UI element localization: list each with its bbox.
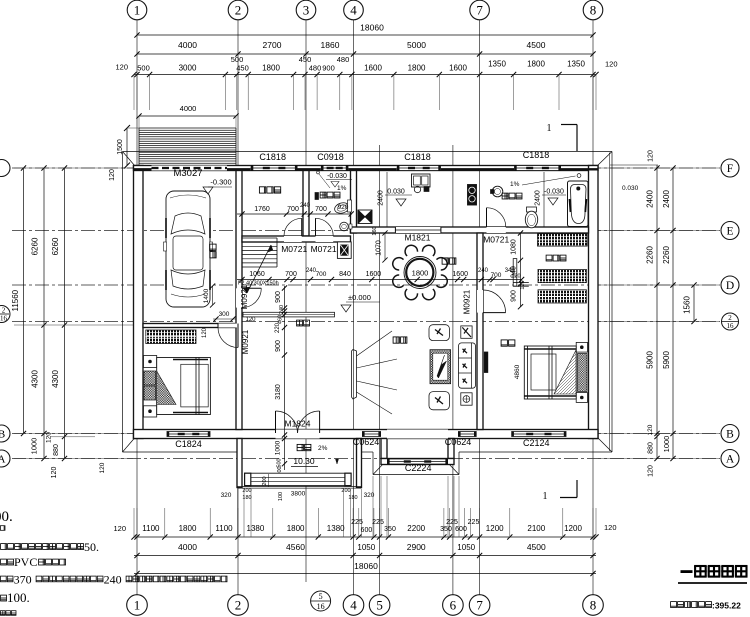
kitchen dim 2400 bbox=[378, 172, 388, 227]
window C1818 storage bbox=[251, 166, 298, 171]
svg-text:2400: 2400 bbox=[535, 190, 542, 206]
svg-text:18060: 18060 bbox=[360, 23, 384, 33]
svg-text:700: 700 bbox=[491, 272, 502, 279]
svg-text:18060: 18060 bbox=[354, 561, 378, 571]
window C0624 living a bbox=[362, 432, 381, 437]
interior wall hall north bbox=[242, 236, 351, 242]
svg-text::395.22: :395.22 bbox=[712, 601, 741, 611]
svg-text:1: 1 bbox=[134, 3, 141, 18]
exterior wall left bbox=[134, 166, 144, 439]
svg-text:16: 16 bbox=[0, 315, 8, 323]
svg-text:120: 120 bbox=[520, 280, 526, 289]
svg-text:1350: 1350 bbox=[567, 60, 585, 69]
eave overhang outline bbox=[123, 152, 613, 453]
top overall dimension 18060 bbox=[134, 23, 595, 38]
label 杂物间 bbox=[259, 187, 265, 193]
svg-text:4: 4 bbox=[350, 3, 357, 18]
svg-text:C2124: C2124 bbox=[523, 438, 550, 448]
ramp dimension 4000 bbox=[136, 104, 238, 128]
garage ramp hatch bbox=[139, 128, 236, 166]
svg-text:1: 1 bbox=[543, 491, 548, 502]
level marker 0.000 bbox=[341, 293, 380, 312]
svg-text:4000: 4000 bbox=[180, 104, 197, 113]
interior wall axis4 kitchen west bbox=[351, 171, 357, 234]
svg-text:240: 240 bbox=[478, 268, 489, 274]
svg-text:00.: 00. bbox=[0, 509, 13, 525]
svg-text:120: 120 bbox=[113, 524, 126, 533]
title 一层平面图 bbox=[678, 566, 748, 584]
label 卫生间 bath2 bbox=[502, 193, 508, 199]
hall vertical dims bbox=[245, 285, 287, 483]
svg-text:500: 500 bbox=[137, 64, 150, 73]
svg-text:M0921: M0921 bbox=[463, 289, 472, 314]
svg-text:2: 2 bbox=[2, 307, 6, 315]
dining dim 1070 bbox=[372, 226, 388, 262]
svg-text:1100: 1100 bbox=[142, 524, 160, 533]
svg-text:700: 700 bbox=[287, 206, 299, 213]
svg-text:1380: 1380 bbox=[247, 524, 265, 533]
kitchen stove bbox=[468, 185, 477, 206]
svg-text:2: 2 bbox=[728, 314, 732, 322]
svg-text:16: 16 bbox=[727, 322, 735, 330]
eave around bay window bbox=[373, 452, 459, 475]
svg-text:2: 2 bbox=[235, 3, 242, 18]
porch steps bbox=[237, 459, 362, 488]
grid horizontal axes F E D S B A bbox=[12, 168, 720, 459]
svg-text:100.: 100. bbox=[7, 590, 30, 605]
svg-text:M0721: M0721 bbox=[483, 235, 509, 245]
svg-text:4500: 4500 bbox=[527, 40, 546, 50]
axis bubbles right bbox=[721, 159, 739, 468]
svg-text:M0721: M0721 bbox=[311, 244, 337, 254]
svg-text:320: 320 bbox=[221, 492, 232, 499]
svg-text:1380: 1380 bbox=[327, 524, 345, 533]
left dimension chains bbox=[11, 165, 133, 478]
svg-text:460: 460 bbox=[278, 315, 284, 324]
svg-text:600: 600 bbox=[455, 526, 467, 533]
grid vertical axes 1-8 bbox=[137, 20, 593, 596]
section bubble 5/16 bottom bbox=[311, 591, 331, 611]
svg-text:6260: 6260 bbox=[51, 237, 60, 255]
svg-text:1080: 1080 bbox=[511, 239, 518, 255]
svg-text:840: 840 bbox=[339, 271, 351, 278]
svg-text:C1818: C1818 bbox=[523, 150, 550, 160]
svg-text:120: 120 bbox=[648, 150, 655, 162]
svg-text:-0.300: -0.300 bbox=[210, 178, 231, 187]
bedroom1 wardrobe hatch bbox=[146, 330, 196, 344]
label 客厅 bbox=[393, 337, 399, 343]
svg-text:320: 320 bbox=[364, 492, 375, 499]
svg-text:200: 200 bbox=[341, 488, 350, 494]
garage dims bbox=[202, 283, 236, 338]
svg-text:900: 900 bbox=[275, 340, 282, 352]
exterior wall right bbox=[589, 166, 599, 439]
svg-text:4000: 4000 bbox=[178, 542, 197, 552]
axis bubbles left edge bbox=[0, 160, 10, 468]
svg-text:600: 600 bbox=[361, 527, 373, 534]
svg-text:1500: 1500 bbox=[117, 139, 124, 155]
svg-text:1200: 1200 bbox=[564, 524, 582, 533]
svg-text:0.030: 0.030 bbox=[622, 185, 639, 192]
svg-text:16: 16 bbox=[317, 602, 325, 611]
svg-text:160: 160 bbox=[372, 226, 378, 235]
svg-text:7: 7 bbox=[476, 3, 483, 18]
svg-text:1%: 1% bbox=[337, 185, 347, 192]
svg-text:120: 120 bbox=[51, 467, 58, 479]
kitchen level 0.030 bbox=[385, 189, 412, 207]
porch wall left bbox=[237, 439, 242, 488]
svg-text:120: 120 bbox=[245, 317, 256, 323]
svg-text:1800: 1800 bbox=[287, 524, 305, 533]
svg-text:3180: 3180 bbox=[275, 384, 282, 400]
svg-text:700: 700 bbox=[316, 271, 327, 278]
svg-text:2400: 2400 bbox=[378, 190, 385, 206]
bedroom2 bed bbox=[524, 342, 587, 402]
svg-text:880: 880 bbox=[648, 442, 655, 454]
altar shelf 神位 bbox=[243, 312, 335, 317]
svg-text:PVC: PVC bbox=[14, 555, 37, 569]
kitchen sink bbox=[412, 174, 431, 193]
garage level -0.300 bbox=[203, 178, 232, 195]
svg-text:8: 8 bbox=[590, 598, 597, 613]
svg-text:350: 350 bbox=[440, 526, 452, 533]
svg-text:1000: 1000 bbox=[30, 438, 39, 455]
svg-text:C1818: C1818 bbox=[259, 152, 286, 162]
svg-text:5900: 5900 bbox=[662, 351, 671, 369]
svg-text:1560: 1560 bbox=[683, 296, 692, 314]
interior dim row upper bbox=[237, 203, 354, 217]
svg-text:1600: 1600 bbox=[366, 271, 382, 278]
svg-text:1860: 1860 bbox=[321, 40, 340, 50]
bay window opening bbox=[387, 430, 448, 439]
svg-text:3800: 3800 bbox=[291, 491, 306, 498]
top intermediate dimensions bbox=[134, 40, 595, 57]
porch wall right bbox=[357, 439, 362, 488]
svg-text:225: 225 bbox=[351, 519, 363, 526]
svg-text:940: 940 bbox=[511, 266, 518, 278]
bath1 fixtures bbox=[315, 193, 352, 231]
svg-text:225: 225 bbox=[372, 519, 384, 526]
bedroom2 wardrobe hatches bbox=[538, 234, 588, 303]
door M0921 bedroom1 bbox=[218, 324, 238, 348]
svg-text:2200: 2200 bbox=[407, 524, 425, 533]
svg-text:1600: 1600 bbox=[449, 64, 467, 73]
garage label 车库 bbox=[210, 244, 216, 250]
svg-text:220: 220 bbox=[275, 322, 281, 333]
window C2124 bedroom2 bbox=[511, 432, 566, 437]
door M0721 bath1 bbox=[316, 218, 334, 242]
svg-text:4300: 4300 bbox=[51, 370, 60, 388]
svg-text:120: 120 bbox=[202, 327, 208, 338]
svg-text:240: 240 bbox=[104, 573, 122, 587]
svg-text:900: 900 bbox=[322, 64, 335, 73]
svg-text:370: 370 bbox=[14, 573, 32, 587]
top wall poche bbox=[134, 168, 599, 170]
svg-text:2%: 2% bbox=[318, 445, 328, 452]
shaft with X bbox=[337, 242, 351, 259]
svg-text:A: A bbox=[0, 454, 6, 466]
bottom intermediate dimensions bbox=[134, 542, 596, 558]
svg-text:4000: 4000 bbox=[178, 40, 197, 50]
bedroom2 tv bbox=[484, 352, 488, 373]
bath2 dim 2400 bbox=[535, 172, 545, 227]
svg-text:E: E bbox=[726, 226, 733, 238]
svg-text:M0721: M0721 bbox=[281, 244, 307, 254]
svg-text:120: 120 bbox=[604, 523, 617, 532]
svg-text:200: 200 bbox=[242, 488, 251, 494]
exterior wall top bbox=[134, 166, 599, 171]
svg-text:120: 120 bbox=[109, 169, 116, 181]
svg-text:1050: 1050 bbox=[457, 543, 475, 552]
svg-text:120: 120 bbox=[648, 465, 655, 477]
svg-text:M1824: M1824 bbox=[285, 419, 311, 429]
svg-text:4860: 4860 bbox=[514, 364, 521, 379]
svg-text:M0921: M0921 bbox=[240, 284, 249, 309]
living room tv and feature lines bbox=[352, 331, 398, 414]
svg-text:3: 3 bbox=[303, 3, 310, 18]
svg-text:2260: 2260 bbox=[646, 246, 655, 264]
section mark 1 bottom bbox=[543, 480, 578, 502]
svg-text:1: 1 bbox=[134, 598, 141, 613]
svg-text:2900: 2900 bbox=[407, 542, 426, 552]
door M0721 bath2 bbox=[487, 208, 506, 233]
interior wall bedroom1 north bbox=[143, 324, 236, 328]
svg-text:1350: 1350 bbox=[488, 60, 506, 69]
svg-text:1800: 1800 bbox=[408, 64, 426, 73]
ramp dimension 1500 bbox=[109, 125, 139, 181]
svg-text:11560: 11560 bbox=[11, 289, 20, 311]
svg-text:700: 700 bbox=[315, 206, 327, 213]
svg-text:0.030: 0.030 bbox=[387, 189, 405, 196]
svg-text:1000: 1000 bbox=[275, 440, 282, 455]
svg-text:-0.030: -0.030 bbox=[327, 173, 347, 180]
garage door M3027 dashed bbox=[152, 166, 228, 171]
svg-text:1760: 1760 bbox=[254, 206, 270, 213]
svg-text:1800: 1800 bbox=[179, 524, 197, 533]
opening M1821 dining bbox=[395, 227, 441, 233]
axis bubbles top bbox=[127, 0, 603, 20]
svg-text:240: 240 bbox=[300, 203, 311, 209]
svg-text:100: 100 bbox=[278, 492, 284, 501]
svg-text:5: 5 bbox=[376, 598, 383, 613]
top detail dimensions bbox=[115, 55, 617, 110]
svg-text:C2224: C2224 bbox=[405, 463, 432, 473]
svg-text:50.: 50. bbox=[84, 540, 99, 554]
svg-text:B: B bbox=[0, 429, 5, 441]
bedroom1 bed bbox=[144, 356, 211, 418]
svg-text:4300: 4300 bbox=[31, 370, 40, 388]
svg-text:C0624: C0624 bbox=[445, 437, 472, 447]
svg-text:C1824: C1824 bbox=[175, 439, 202, 449]
bottom detail dimensions bbox=[113, 476, 616, 540]
section mark 1 top bbox=[547, 123, 578, 151]
svg-text:900: 900 bbox=[511, 290, 518, 302]
bath1 level and slope bbox=[317, 171, 352, 192]
svg-text:7: 7 bbox=[476, 598, 483, 613]
window C0918 bath1 bbox=[321, 166, 349, 171]
svg-text:1050: 1050 bbox=[357, 543, 375, 552]
right dimension chains bbox=[598, 150, 719, 477]
bottom overall dimension 18060 bbox=[134, 561, 596, 576]
bay window side walls bbox=[381, 439, 387, 459]
svg-text:1800: 1800 bbox=[412, 269, 429, 278]
svg-text:1%: 1% bbox=[510, 181, 520, 188]
porch step dims bbox=[221, 474, 375, 501]
svg-text:B: B bbox=[726, 429, 734, 441]
svg-text:C1818: C1818 bbox=[404, 152, 431, 162]
svg-text:1200: 1200 bbox=[486, 524, 504, 533]
svg-text:480: 480 bbox=[337, 55, 350, 64]
svg-text:1600: 1600 bbox=[364, 64, 382, 73]
interior wall axis2 garage/stair bbox=[236, 171, 242, 430]
svg-text:5900: 5900 bbox=[646, 351, 655, 369]
svg-text:2260: 2260 bbox=[662, 246, 671, 264]
svg-text:5000: 5000 bbox=[407, 40, 426, 50]
svg-text:4560: 4560 bbox=[286, 542, 305, 552]
interior wall axisE kitchen/dining bbox=[351, 227, 589, 233]
shaft near dining bbox=[513, 259, 529, 287]
svg-text:120: 120 bbox=[605, 60, 618, 69]
svg-text:1060: 1060 bbox=[249, 271, 265, 278]
svg-text:M1821: M1821 bbox=[405, 233, 431, 243]
window C1824 bedroom1 bbox=[167, 432, 211, 437]
svg-text:2400: 2400 bbox=[646, 190, 655, 208]
svg-text:2400: 2400 bbox=[662, 190, 671, 208]
label 餐厅 bbox=[442, 258, 448, 264]
svg-text:1800: 1800 bbox=[262, 64, 280, 73]
car in garage bbox=[164, 191, 213, 307]
notes text block bbox=[0, 509, 227, 615]
svg-text:M3027: M3027 bbox=[173, 168, 202, 179]
svg-text:10.30: 10.30 bbox=[293, 456, 315, 466]
svg-text:700: 700 bbox=[285, 271, 297, 278]
svg-text:2700: 2700 bbox=[263, 40, 282, 50]
svg-text:450: 450 bbox=[236, 64, 249, 73]
svg-text:180: 180 bbox=[348, 495, 357, 501]
bay window front wall bbox=[381, 459, 454, 465]
svg-text:120: 120 bbox=[647, 424, 654, 435]
svg-text:1100: 1100 bbox=[215, 524, 233, 533]
exterior wall bottom bbox=[134, 430, 599, 439]
svg-text:4: 4 bbox=[350, 598, 357, 613]
door M0721 storage bbox=[284, 218, 302, 242]
svg-text:350: 350 bbox=[384, 526, 396, 533]
svg-text:M0921: M0921 bbox=[241, 329, 250, 354]
svg-text:120: 120 bbox=[99, 462, 106, 473]
svg-text:900: 900 bbox=[275, 291, 282, 303]
svg-text:3000: 3000 bbox=[179, 64, 197, 73]
svg-text:1000: 1000 bbox=[662, 436, 671, 453]
svg-text:200: 200 bbox=[262, 476, 268, 485]
interior wall axis3 storage/bath bbox=[303, 171, 309, 237]
svg-text:5: 5 bbox=[319, 592, 323, 601]
bathtub bbox=[568, 181, 589, 227]
bath2 fixtures bbox=[491, 186, 538, 228]
svg-text:±0.000: ±0.000 bbox=[348, 293, 371, 302]
label 神位 bbox=[297, 320, 303, 326]
interior wall axis7 living/bedroom2 bbox=[477, 233, 483, 430]
svg-text:8: 8 bbox=[590, 3, 597, 18]
door M1824 double entry bbox=[276, 411, 320, 439]
svg-text:A: A bbox=[726, 454, 735, 466]
svg-text:C0918: C0918 bbox=[317, 152, 344, 162]
door M0921 bedroom2 bbox=[477, 290, 506, 313]
interior dim row mid bbox=[237, 268, 524, 282]
svg-text:2100: 2100 bbox=[527, 524, 545, 533]
window C1818 kitchen bbox=[397, 166, 441, 171]
section bubble 2/16 right bbox=[722, 313, 739, 330]
svg-text:1400: 1400 bbox=[203, 288, 210, 303]
porch labels bbox=[291, 444, 328, 466]
label 卫生间 bath1 bbox=[320, 192, 326, 198]
living room sofa set bbox=[429, 325, 476, 410]
axis bubbles bottom bbox=[127, 595, 604, 616]
svg-text:225: 225 bbox=[446, 519, 458, 526]
svg-text:1070: 1070 bbox=[376, 240, 383, 256]
svg-text:120: 120 bbox=[115, 63, 128, 72]
svg-text:240: 240 bbox=[279, 305, 285, 314]
svg-text:F: F bbox=[727, 163, 733, 175]
svg-text:4500: 4500 bbox=[527, 542, 546, 552]
svg-text:D: D bbox=[726, 280, 734, 292]
svg-text:C0624: C0624 bbox=[353, 437, 380, 447]
svg-text:2: 2 bbox=[235, 598, 242, 613]
cloakroom dims bbox=[511, 230, 527, 309]
svg-text:6260: 6260 bbox=[31, 237, 40, 255]
label 衣帽间 bbox=[546, 255, 552, 261]
window C0624 living b bbox=[458, 432, 477, 437]
svg-text:225: 225 bbox=[468, 519, 480, 526]
dining table set bbox=[393, 245, 448, 300]
svg-text:300: 300 bbox=[219, 311, 230, 318]
svg-text:1600: 1600 bbox=[452, 271, 468, 278]
svg-text:880: 880 bbox=[53, 444, 60, 456]
window C1818 bath2 bbox=[514, 166, 561, 171]
svg-text:1: 1 bbox=[547, 123, 552, 134]
staircase bbox=[242, 238, 277, 293]
kitchen flue bbox=[358, 210, 372, 224]
bath2 level and slope bbox=[510, 174, 581, 205]
svg-text:F2.40 300X150h: F2.40 300X150h bbox=[238, 281, 279, 287]
svg-text:500: 500 bbox=[277, 458, 283, 467]
window C2224 bay bbox=[387, 459, 448, 464]
label 卧室 bbox=[501, 340, 507, 346]
svg-text:1800: 1800 bbox=[527, 60, 545, 69]
svg-text:480: 480 bbox=[309, 64, 322, 73]
area text bbox=[671, 601, 742, 611]
svg-text:920: 920 bbox=[338, 204, 349, 211]
svg-text:6: 6 bbox=[450, 598, 457, 613]
door M0921 stair hall bbox=[236, 288, 261, 307]
svg-text:-0.030: -0.030 bbox=[544, 189, 564, 196]
svg-text:180: 180 bbox=[242, 495, 251, 501]
